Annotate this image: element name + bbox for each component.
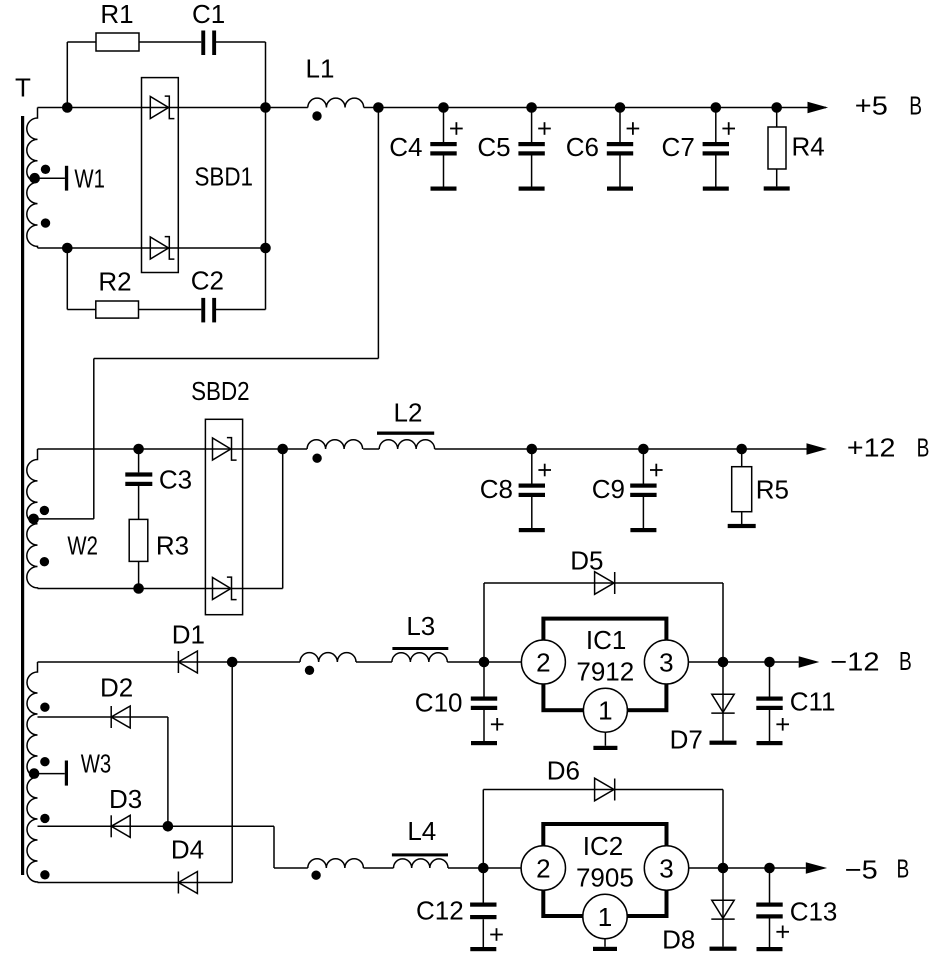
svg-text:C2: C2 xyxy=(191,266,224,296)
svg-text:−5: −5 xyxy=(845,854,878,884)
svg-text:C3: C3 xyxy=(159,464,192,494)
svg-text:7905: 7905 xyxy=(576,863,634,893)
svg-text:C4: C4 xyxy=(389,132,422,162)
svg-text:2: 2 xyxy=(536,854,550,884)
svg-text:C13: C13 xyxy=(790,897,838,927)
svg-text:2: 2 xyxy=(536,648,550,678)
svg-text:C10: C10 xyxy=(415,688,463,718)
svg-text:SBD2: SBD2 xyxy=(191,376,250,406)
svg-text:R4: R4 xyxy=(792,132,825,162)
svg-text:В: В xyxy=(897,854,910,884)
svg-text:T: T xyxy=(15,73,31,103)
svg-text:3: 3 xyxy=(659,648,673,678)
svg-text:L3: L3 xyxy=(406,611,435,641)
svg-text:В: В xyxy=(899,646,912,676)
svg-text:C1: C1 xyxy=(192,0,225,29)
svg-text:R2: R2 xyxy=(98,267,131,297)
svg-text:W2: W2 xyxy=(67,531,98,561)
svg-text:D7: D7 xyxy=(670,725,703,755)
svg-text:1: 1 xyxy=(598,902,612,932)
svg-text:7912: 7912 xyxy=(576,657,634,687)
svg-text:D5: D5 xyxy=(570,546,603,576)
svg-text:C9: C9 xyxy=(592,474,625,504)
svg-text:D8: D8 xyxy=(662,925,695,955)
svg-text:L4: L4 xyxy=(407,816,436,846)
svg-text:C7: C7 xyxy=(662,132,695,162)
svg-text:C5: C5 xyxy=(477,132,510,162)
svg-text:L2: L2 xyxy=(394,397,423,427)
svg-text:SBD1: SBD1 xyxy=(195,162,254,192)
svg-text:C6: C6 xyxy=(566,132,599,162)
svg-text:D1: D1 xyxy=(172,620,205,650)
svg-text:D6: D6 xyxy=(547,756,580,786)
svg-text:3: 3 xyxy=(659,854,673,884)
svg-text:+5: +5 xyxy=(855,91,888,121)
svg-text:IC1: IC1 xyxy=(586,625,626,655)
svg-text:В: В xyxy=(909,91,922,121)
svg-text:D4: D4 xyxy=(171,835,204,865)
svg-text:1: 1 xyxy=(598,696,612,726)
svg-text:C12: C12 xyxy=(416,896,464,926)
svg-text:IC2: IC2 xyxy=(583,831,623,861)
svg-text:R1: R1 xyxy=(100,0,133,29)
svg-text:D2: D2 xyxy=(100,673,133,703)
svg-text:W1: W1 xyxy=(74,163,105,193)
svg-text:L1: L1 xyxy=(306,54,335,84)
svg-text:C8: C8 xyxy=(480,474,513,504)
svg-text:R5: R5 xyxy=(756,475,789,505)
svg-text:C11: C11 xyxy=(790,686,836,716)
svg-text:−12: −12 xyxy=(830,646,879,676)
svg-text:W3: W3 xyxy=(81,748,112,778)
svg-text:D3: D3 xyxy=(109,784,142,814)
svg-text:+12: +12 xyxy=(847,433,896,463)
svg-text:В: В xyxy=(917,433,930,463)
svg-text:R3: R3 xyxy=(156,530,189,560)
